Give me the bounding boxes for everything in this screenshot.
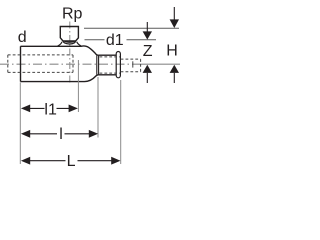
branch socket Rp (female thread) [60,27,78,42]
dimension l1 [21,105,30,113]
branch flare / mouth arc [58,41,82,46]
wire: H reference line from branch socket top [84,27,179,29]
svg-text:l1: l1 [44,101,57,118]
dimension H arrows [173,7,175,20]
dimension l [21,130,30,138]
hidden pipe left (dashed box) [8,55,73,73]
body outline: left press end [21,46,85,81]
wire: d1/Z reference line (gap for d1 text) [85,39,157,41]
extension line L (fitting end) [120,80,122,164]
svg-text:d: d [18,29,27,46]
body reducer bottom curve [85,75,99,82]
svg-text:Z: Z [143,43,153,60]
dimension Z arrows [146,22,148,32]
svg-text:l: l [59,126,63,143]
svg-text:Rp: Rp [62,6,83,23]
extension line l (socket entry) [97,77,99,138]
extension line l1 (branch Z-plane) [77,60,79,112]
svg-text:L: L [67,153,76,170]
svg-text:d1: d1 [106,32,124,49]
svg-text:H: H [166,43,178,60]
right socket cylinder [99,55,117,75]
extension line left end [19,83,21,165]
center line (horizontal axis, dash-dot) [0,63,136,65]
hidden pipe right (dashed box) [100,57,121,73]
right socket entry double ring [97,55,99,75]
right socket press bead / end [116,52,120,78]
body reducer top curve [81,46,99,55]
node: pipe insertion depth tick [132,61,134,67]
dimension L [21,157,30,165]
branch center line (vertical axis through Rp socket) [69,22,71,85]
